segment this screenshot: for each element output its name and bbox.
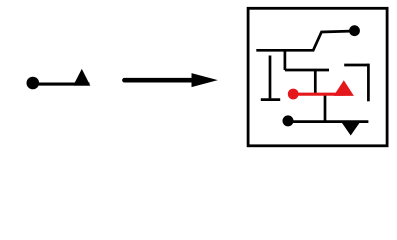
- node (red highlighted dot): [288, 89, 299, 100]
- wire (vertical between red net and bottom wire): [324, 95, 327, 122]
- wire (corner bracket horizontal): [344, 64, 368, 67]
- wire (left symbol horizontal lead): [33, 83, 90, 86]
- wire (vertical drop from top net): [284, 50, 287, 70]
- arrow (maps-to): [125, 78, 197, 83]
- capacitor plate bar: [261, 98, 280, 101]
- node A (left symbol terminal dot): [27, 77, 40, 90]
- transistor symbol (left, filled up triangle): [73, 69, 90, 86]
- capacitor plate (left vertical stub): [269, 56, 272, 99]
- node (top right dot): [349, 25, 360, 36]
- wire (red highlighted net): [293, 93, 345, 96]
- transistor (red filled up triangle on red net): [334, 80, 354, 96]
- wire (top net: horizontal, rising jog, horizontal to node): [256, 31, 354, 50]
- wire (bottom horizontal): [288, 120, 368, 123]
- ground (filled down triangle on bottom wire): [341, 122, 361, 136]
- wire (middle horizontal): [285, 69, 329, 72]
- wire (vertical from middle horizontal down to red net): [314, 70, 317, 94]
- schematic bounding box: [248, 8, 387, 146]
- node (bottom left dot): [283, 115, 294, 126]
- wire (corner bracket vertical): [367, 64, 370, 102]
